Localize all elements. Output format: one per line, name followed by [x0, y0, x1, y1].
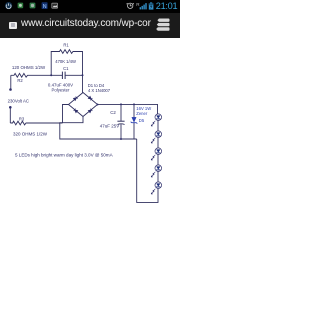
svg-text:120 OHMS 1/2W: 120 OHMS 1/2W — [12, 65, 46, 70]
svg-text:Zener: Zener — [136, 111, 148, 116]
svg-text:D5: D5 — [139, 118, 145, 123]
svg-text:5 LEDs high bright warm day li: 5 LEDs high bright warm day light 3.0V @… — [15, 153, 114, 158]
svg-text:R3: R3 — [19, 116, 25, 121]
svg-text:C1: C1 — [63, 66, 69, 71]
svg-text:320 OHMS 1/2W: 320 OHMS 1/2W — [13, 131, 48, 136]
svg-text:4 X 1N4007: 4 X 1N4007 — [88, 88, 111, 93]
svg-text:C2: C2 — [110, 110, 116, 115]
svg-text:47uF 25V: 47uF 25V — [100, 123, 120, 128]
svg-text:21:01: 21:01 — [156, 1, 178, 11]
svg-text:0.47uF 400V: 0.47uF 400V — [48, 82, 73, 87]
svg-text:N: N — [43, 4, 47, 10]
svg-text:R1: R1 — [63, 42, 69, 47]
svg-text:R2: R2 — [17, 78, 23, 83]
svg-text:Polyester: Polyester — [52, 88, 70, 93]
svg-text:230Volt AC: 230Volt AC — [8, 98, 29, 103]
svg-text:470K 1/4W: 470K 1/4W — [55, 59, 76, 64]
svg-text:R: R — [136, 2, 140, 7]
